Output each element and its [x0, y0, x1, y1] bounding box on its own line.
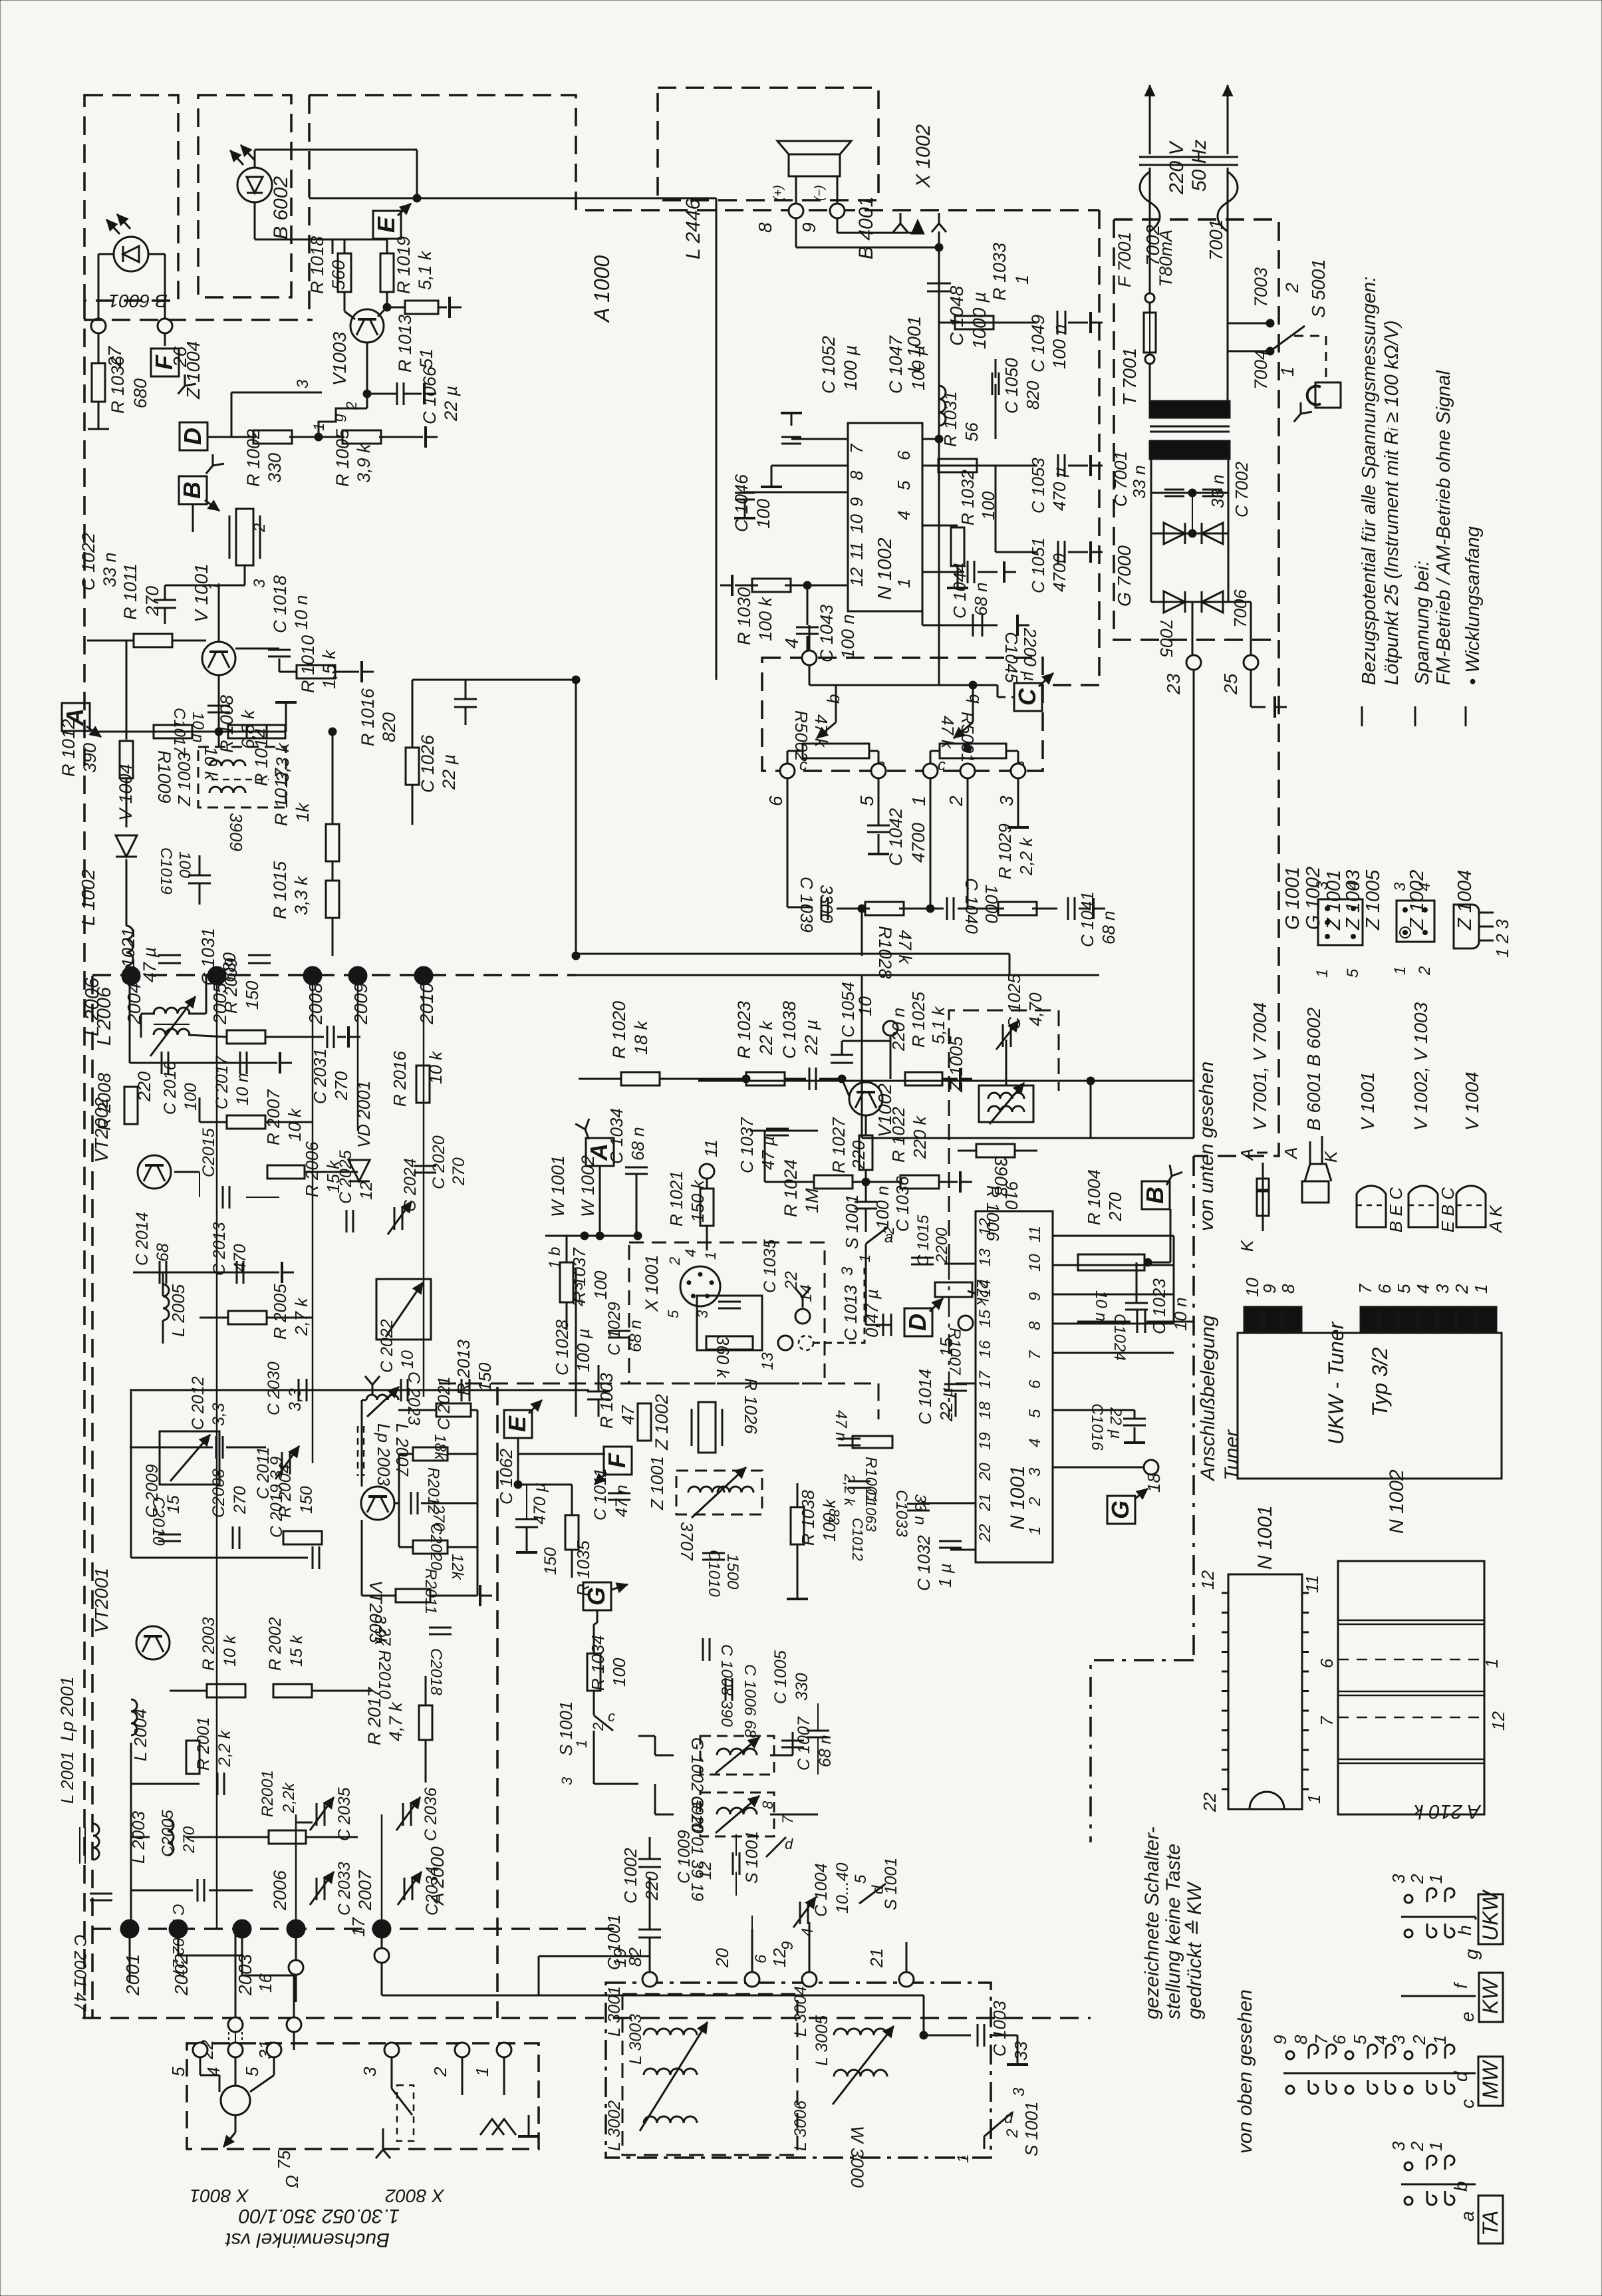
svg-text:1: 1 [954, 2154, 972, 2163]
svg-text:C1033: C1033 [892, 1490, 910, 1537]
svg-text:1k: 1k [293, 802, 313, 822]
svg-text:12: 12 [357, 1181, 376, 1200]
svg-text:12: 12 [696, 1861, 715, 1880]
svg-text:UKW - Tuner: UKW - Tuner [1324, 1321, 1348, 1445]
svg-text:R 1036: R 1036 [108, 355, 128, 414]
svg-text:C 1066: C 1066 [420, 366, 440, 424]
svg-text:E B C: E B C [1438, 1187, 1458, 1232]
svg-text:23: 23 [1163, 673, 1184, 695]
svg-text:C 1026: C 1026 [418, 734, 438, 793]
svg-text:270: 270 [180, 1826, 198, 1854]
svg-text:R 1032: R 1032 [958, 470, 978, 525]
svg-text:6: 6 [752, 1954, 770, 1963]
svg-text:12k: 12k [448, 1554, 466, 1581]
svg-text:360 k: 360 k [713, 1336, 733, 1379]
svg-text:Lp 2001: Lp 2001 [57, 1676, 77, 1741]
svg-text:C 1004: C 1004 [812, 1863, 831, 1917]
svg-text:8: 8 [1291, 2035, 1311, 2045]
svg-text:22 µ: 22 µ [936, 1387, 956, 1422]
svg-text:68 n: 68 n [628, 1127, 648, 1161]
svg-text:17: 17 [348, 1917, 368, 1937]
svg-text:2002: 2002 [171, 1953, 192, 1996]
svg-text:21: 21 [976, 1493, 994, 1512]
svg-text:22 µ: 22 µ [439, 754, 459, 790]
svg-text:7: 7 [1317, 1715, 1337, 1726]
svg-text:L 1002: L 1002 [78, 869, 98, 926]
svg-text:4: 4 [1344, 881, 1362, 890]
svg-text:1M: 1M [802, 1188, 822, 1213]
svg-text:C 1036: C 1036 [892, 1176, 912, 1232]
svg-text:18: 18 [976, 1401, 994, 1419]
svg-text:7: 7 [1026, 1350, 1044, 1360]
svg-text:3: 3 [1391, 882, 1409, 891]
svg-text:L 2005: L 2005 [168, 1284, 188, 1337]
svg-text:3: 3 [1389, 1874, 1408, 1884]
svg-text:h: h [1454, 1925, 1475, 1936]
svg-text:X 8001: X 8001 [190, 2186, 249, 2206]
svg-text:V1003: V1003 [329, 332, 350, 386]
svg-text:R 1023: R 1023 [734, 1001, 754, 1059]
svg-text:10: 10 [398, 1350, 417, 1369]
svg-text:150 k: 150 k [688, 1179, 708, 1222]
svg-text:A: A [1281, 1147, 1301, 1160]
svg-text:3909: 3909 [226, 813, 246, 851]
svg-text:C 2013: C 2013 [210, 1222, 229, 1276]
svg-text:7: 7 [847, 443, 867, 454]
svg-text:C 1041: C 1041 [1077, 891, 1097, 947]
svg-text:Z 1001: Z 1001 [647, 1456, 667, 1510]
svg-text:9: 9 [779, 1941, 797, 1950]
svg-text:VD 2001: VD 2001 [354, 1081, 374, 1148]
svg-text:2: 2 [1416, 966, 1434, 976]
svg-text:A 2000: A 2000 [427, 1846, 448, 1906]
svg-text:D: D [179, 428, 206, 445]
svg-text:10 k: 10 k [221, 1634, 239, 1667]
svg-text:3: 3 [839, 1266, 857, 1276]
svg-text:C 1018: C 1018 [270, 575, 290, 633]
svg-text:L 3005: L 3005 [813, 2015, 831, 2066]
svg-text:4700: 4700 [1049, 553, 1069, 592]
svg-text:910: 910 [1001, 1181, 1021, 1210]
svg-text:C 1035: C 1035 [761, 1239, 779, 1293]
svg-text:2: 2 [1409, 2035, 1429, 2045]
svg-text:2: 2 [1407, 2141, 1427, 2152]
svg-text:2: 2 [343, 402, 360, 410]
svg-text:C 2024: C 2024 [401, 1158, 420, 1212]
svg-text:R 2002: R 2002 [266, 1617, 285, 1671]
svg-text:270: 270 [450, 1157, 468, 1186]
svg-text:33 n: 33 n [100, 552, 120, 587]
svg-text:2,2 k: 2,2 k [1016, 837, 1036, 876]
svg-text:21: 21 [867, 1948, 886, 1968]
svg-text:330: 330 [793, 1673, 811, 1701]
svg-text:S 1001: S 1001 [842, 1195, 862, 1249]
svg-text:270: 270 [231, 1486, 249, 1514]
svg-text:e: e [1457, 2011, 1478, 2022]
svg-text:11: 11 [1302, 1575, 1322, 1593]
svg-text:1000 µ: 1000 µ [969, 292, 990, 349]
svg-text:E: E [372, 216, 400, 233]
svg-text:1,5 k: 1,5 k [319, 649, 339, 689]
svg-text:C 1042: C 1042 [886, 808, 906, 866]
svg-text:6: 6 [1375, 1284, 1395, 1294]
svg-text:33: 33 [1011, 2041, 1031, 2061]
svg-text:18 k: 18 k [631, 1020, 651, 1055]
svg-text:R 1004: R 1004 [1084, 1169, 1104, 1225]
svg-text:C 1039: C 1039 [797, 877, 817, 933]
svg-text:C2015: C2015 [200, 1128, 218, 1177]
svg-text:390: 390 [80, 743, 100, 773]
svg-text:stellung keine Taste: stellung keine Taste [1162, 1844, 1184, 2019]
svg-text:2: 2 [430, 2067, 450, 2077]
svg-text:R 2007: R 2007 [263, 1089, 283, 1145]
svg-text:Buchsenwinkel vst: Buchsenwinkel vst [225, 2229, 390, 2251]
svg-text:R 1011: R 1011 [120, 563, 140, 620]
svg-text:C1012: C1012 [849, 1518, 866, 1561]
svg-text:6: 6 [1329, 2035, 1349, 2045]
svg-text:Z 1002: Z 1002 [652, 1394, 672, 1451]
svg-text:d: d [1004, 2109, 1013, 2127]
svg-text:470 µ: 470 µ [1049, 467, 1069, 511]
svg-text:F 7001: F 7001 [1115, 231, 1135, 287]
svg-text:2: 2 [251, 523, 269, 533]
svg-text:10 k: 10 k [285, 1107, 305, 1141]
svg-text:R 2001: R 2001 [194, 1717, 213, 1771]
svg-text:4: 4 [799, 1928, 817, 1937]
svg-text:9: 9 [847, 498, 867, 507]
svg-text:c: c [608, 1708, 615, 1725]
svg-text:82: 82 [826, 1508, 843, 1524]
svg-text:270: 270 [142, 586, 162, 617]
svg-text:C 2014: C 2014 [133, 1212, 152, 1266]
svg-text:gedrückt ≙ KW: gedrückt ≙ KW [1184, 1881, 1206, 2019]
svg-text:2: 2 [1003, 2129, 1021, 2138]
svg-text:220: 220 [849, 1140, 868, 1170]
svg-text:9: 9 [1026, 1292, 1044, 1301]
svg-text:A K: A K [1486, 1204, 1506, 1234]
svg-text:B 4001: B 4001 [855, 196, 877, 259]
svg-text:T 7001: T 7001 [1119, 348, 1140, 406]
svg-text:C1016: C1016 [1088, 1403, 1106, 1451]
svg-text:470: 470 [231, 1244, 249, 1272]
svg-text:13: 13 [976, 1248, 994, 1266]
svg-text:4: 4 [781, 638, 802, 648]
svg-text:1: 1 [1426, 2142, 1446, 2151]
svg-text:2006: 2006 [270, 1870, 290, 1911]
svg-text:3,3: 3,3 [286, 1388, 305, 1411]
svg-text:R 1025: R 1025 [908, 992, 928, 1048]
svg-text:R 1034: R 1034 [588, 1635, 608, 1691]
svg-text:R 1026: R 1026 [741, 1378, 761, 1434]
svg-text:R 1018: R 1018 [307, 236, 327, 294]
svg-text:X 1001: X 1001 [642, 1254, 662, 1312]
svg-text:R5002: R5002 [791, 710, 811, 762]
svg-text:6: 6 [894, 450, 914, 460]
svg-text:K: K [1321, 1150, 1341, 1163]
svg-text:C 2030: C 2030 [265, 1362, 283, 1415]
svg-text:2: 2 [590, 1723, 606, 1731]
svg-text:L 2007: L 2007 [392, 1423, 412, 1477]
svg-text:R 2017: R 2017 [364, 1687, 384, 1745]
svg-text:R 1030: R 1030 [734, 587, 754, 645]
svg-text:10 n: 10 n [189, 712, 207, 743]
svg-text:R 2008: R 2008 [94, 1073, 114, 1131]
svg-text:C 2025: C 2025 [336, 1150, 355, 1204]
svg-text:C 1044: C 1044 [950, 563, 970, 619]
svg-text:33 n: 33 n [1208, 474, 1228, 508]
svg-text:2,2 k: 2,2 k [215, 1729, 234, 1767]
svg-text:C 1015: C 1015 [914, 1215, 932, 1266]
svg-text:270: 270 [331, 1071, 351, 1101]
svg-text:V 7001, V 7004: V 7001, V 7004 [1250, 1002, 1270, 1131]
svg-text:1: 1 [1026, 1526, 1044, 1535]
svg-text:3: 3 [1389, 2035, 1408, 2045]
svg-text:10: 10 [847, 514, 867, 533]
svg-text:V 1004: V 1004 [1462, 1072, 1482, 1131]
svg-text:12: 12 [976, 1218, 994, 1236]
svg-text:C 1025: C 1025 [1004, 974, 1024, 1030]
svg-text:C 1009: C 1009 [675, 1830, 694, 1884]
svg-text:68: 68 [154, 1243, 172, 1262]
svg-text:R5001: R5001 [958, 712, 978, 763]
svg-text:22 µ: 22 µ [1107, 1407, 1125, 1439]
svg-text:9: 9 [1270, 2035, 1290, 2045]
svg-text:C 2019 3,9: C 2019 3,9 [267, 1457, 286, 1538]
svg-text:C 7001: C 7001 [1111, 451, 1131, 507]
svg-text:10 n: 10 n [1092, 1290, 1110, 1322]
svg-text:R 2005: R 2005 [270, 1284, 290, 1340]
svg-text:12: 12 [1198, 1570, 1218, 1590]
svg-text:1: 1 [1482, 1659, 1502, 1668]
svg-text:C 2012: C 2012 [189, 1376, 207, 1430]
svg-text:V 1001: V 1001 [1357, 1072, 1378, 1131]
svg-text:S 5001: S 5001 [1308, 259, 1329, 318]
svg-text:A: A [61, 708, 88, 726]
svg-text:2009: 2009 [350, 983, 371, 1025]
svg-text:C 2017: C 2017 [213, 1055, 231, 1109]
svg-text:C 2009: C 2009 [143, 1464, 162, 1518]
svg-text:68 n: 68 n [971, 582, 991, 616]
svg-text:7: 7 [779, 1815, 796, 1824]
svg-text:Z 1004: Z 1004 [1454, 870, 1476, 931]
svg-text:20: 20 [712, 1948, 732, 1968]
svg-text:Bezugspotential für alle Spann: Bezugspotential für alle Spannungsmessun… [1359, 277, 1380, 685]
svg-text:K: K [1237, 1239, 1257, 1252]
svg-text:68 n: 68 n [626, 1320, 645, 1352]
svg-text:8: 8 [1026, 1321, 1044, 1330]
svg-text:9: 9 [1260, 1284, 1279, 1294]
svg-text:R 1022: R 1022 [888, 1107, 908, 1163]
svg-text:15 k: 15 k [287, 1634, 306, 1667]
svg-text:B 6001 B 6002: B 6001 B 6002 [1303, 1007, 1324, 1131]
svg-text:C 2016: C 2016 [161, 1061, 180, 1115]
svg-text:R 1010: R 1010 [298, 635, 318, 693]
svg-text:C 1028: C 1028 [552, 1320, 572, 1375]
svg-text:L 2446: L 2446 [682, 198, 704, 259]
svg-text:1: 1 [1426, 1874, 1446, 1884]
svg-text:G: G [1107, 1501, 1134, 1519]
svg-text:25: 25 [1220, 673, 1241, 695]
svg-text:10...40: 10...40 [833, 1862, 852, 1914]
svg-text:R 1013: R 1013 [395, 315, 415, 372]
svg-text:gezeichnete Schalter-: gezeichnete Schalter- [1141, 1826, 1163, 2019]
svg-text:1: 1 [311, 423, 327, 431]
svg-text:6: 6 [765, 795, 786, 806]
svg-text:C1019: C1019 [157, 847, 175, 895]
svg-text:T80mA: T80mA [1156, 229, 1176, 287]
svg-text:47 µ: 47 µ [140, 947, 160, 982]
svg-text:5: 5 [1350, 2035, 1370, 2045]
svg-text:68 n: 68 n [816, 1735, 835, 1767]
svg-text:L 3003: L 3003 [626, 2014, 645, 2065]
svg-text:22: 22 [1200, 1793, 1220, 1812]
svg-text:9: 9 [799, 222, 819, 233]
svg-text:a: a [1457, 2211, 1478, 2222]
svg-text:3: 3 [1432, 1284, 1452, 1294]
svg-text:Lp 2003: Lp 2003 [374, 1423, 394, 1487]
svg-text:C 1038: C 1038 [779, 1001, 799, 1059]
svg-text:2: 2 [946, 795, 966, 807]
svg-text:1: 1 [573, 1740, 590, 1748]
svg-text:7: 7 [1311, 2034, 1331, 2045]
svg-text:Typ 3/2: Typ 3/2 [1368, 1347, 1392, 1417]
svg-text:13: 13 [759, 1352, 777, 1370]
svg-text:33 n: 33 n [911, 1494, 929, 1525]
svg-text:A: A [1237, 1149, 1257, 1161]
svg-text:R 2003: R 2003 [200, 1617, 218, 1671]
svg-text:R 2016: R 2016 [390, 1051, 410, 1107]
svg-text:C 1040: C 1040 [962, 878, 982, 934]
svg-text:V 1004: V 1004 [116, 764, 136, 821]
svg-text:C 1011: C 1011 [591, 1468, 610, 1520]
svg-text:6: 6 [1317, 1658, 1337, 1668]
svg-text:12: 12 [1488, 1711, 1508, 1731]
svg-text:1: 1 [1313, 969, 1331, 978]
svg-text:R2001: R2001 [259, 1770, 277, 1817]
svg-text:3: 3 [1313, 881, 1331, 890]
svg-text:C 1013: C 1013 [841, 1285, 861, 1341]
svg-text:L 3004: L 3004 [791, 1986, 810, 2037]
svg-text:Z 1005: Z 1005 [946, 1036, 966, 1093]
svg-text:C 1001: C 1001 [604, 1914, 624, 1970]
svg-text:3707: 3707 [677, 1522, 697, 1561]
svg-text:3: 3 [294, 379, 312, 388]
svg-text:C 1052: C 1052 [819, 336, 839, 394]
svg-text:C2020: C2020 [427, 1523, 445, 1570]
svg-text:8: 8 [847, 470, 867, 480]
svg-text:UKW: UKW [1478, 1890, 1502, 1941]
svg-text:1500: 1500 [724, 1554, 741, 1590]
svg-text:150: 150 [541, 1547, 560, 1575]
svg-text:22 µ: 22 µ [441, 386, 461, 422]
svg-text:10: 10 [855, 996, 875, 1016]
svg-text:R 1033: R 1033 [990, 243, 1009, 301]
svg-text:• Wicklungsanfang: • Wicklungsanfang [1462, 526, 1484, 685]
svg-text:C 7002: C 7002 [1232, 462, 1252, 517]
svg-text:C 1051: C 1051 [1028, 537, 1048, 593]
svg-text:C 1014: C 1014 [915, 1369, 935, 1425]
svg-text:47 µ: 47 µ [758, 1136, 778, 1170]
svg-text:100 n: 100 n [838, 614, 858, 659]
svg-text:R 2006: R 2006 [302, 1141, 322, 1197]
svg-text:5: 5 [1394, 1284, 1414, 1294]
svg-text:150: 150 [242, 980, 262, 1010]
svg-text:22: 22 [976, 1524, 994, 1542]
svg-text:100: 100 [182, 1083, 200, 1111]
svg-text:C 1053: C 1053 [1028, 458, 1048, 513]
svg-text:N 1002: N 1002 [874, 537, 896, 600]
svg-text:3300: 3300 [817, 885, 837, 923]
svg-text:68 n: 68 n [1099, 911, 1119, 944]
svg-text:3: 3 [996, 795, 1017, 806]
svg-text:4: 4 [682, 1249, 699, 1257]
svg-text:3,9 k: 3,9 k [354, 443, 374, 483]
svg-text:Lötpunkt 25 (Instrument mit Ri: Lötpunkt 25 (Instrument mit Ri ≥ 100 kΩ/… [1381, 320, 1402, 685]
svg-text:C 1023: C 1023 [1149, 1278, 1169, 1334]
svg-text:150: 150 [475, 1362, 495, 1391]
svg-text:7: 7 [1355, 1283, 1375, 1294]
svg-text:L 2001: L 2001 [57, 1751, 77, 1804]
svg-text:(+): (+) [771, 185, 785, 201]
svg-text:7001: 7001 [1206, 219, 1226, 261]
svg-text:6: 6 [1026, 1379, 1044, 1389]
svg-text:2: 2 [666, 1257, 683, 1266]
svg-text:2: 2 [569, 1298, 586, 1307]
svg-text:100 n: 100 n [872, 1186, 892, 1229]
svg-text:KW: KW [1478, 1978, 1502, 2014]
svg-text:3: 3 [360, 2067, 380, 2077]
svg-text:1: 1 [702, 1252, 719, 1260]
svg-text:C 1062: C 1062 [496, 1449, 516, 1505]
svg-text:R 1002: R 1002 [243, 429, 263, 487]
svg-text:C 1034: C 1034 [606, 1108, 626, 1164]
svg-text:680: 680 [130, 378, 150, 408]
svg-text:100 µ: 100 µ [841, 345, 861, 390]
svg-text:b: b [1450, 2181, 1471, 2192]
svg-text:1: 1 [908, 795, 929, 806]
svg-text:3: 3 [1010, 2087, 1028, 2096]
svg-text:51: 51 [416, 349, 436, 368]
svg-text:4: 4 [1413, 1284, 1433, 1294]
svg-text:2001: 2001 [122, 1954, 143, 1996]
svg-text:Z 1004: Z 1004 [183, 341, 203, 400]
svg-text:1 b: 1 b [546, 1247, 564, 1269]
svg-text:S 1001: S 1001 [1021, 2102, 1041, 2156]
svg-text:R 1038: R 1038 [798, 1490, 818, 1546]
svg-text:3: 3 [1026, 1467, 1044, 1477]
svg-text:N 1002: N 1002 [1386, 1469, 1408, 1534]
svg-text:R 1014: R 1014 [251, 728, 271, 786]
svg-text:1.30.052 350.1/00: 1.30.052 350.1/00 [239, 2205, 400, 2227]
svg-text:8: 8 [755, 222, 775, 233]
svg-text:11: 11 [1026, 1226, 1044, 1242]
svg-text:1: 1 [1430, 2035, 1450, 2045]
svg-text:1: 1 [1471, 1284, 1491, 1294]
svg-text:C 1049: C 1049 [1028, 315, 1048, 372]
svg-text:R 1005: R 1005 [333, 428, 352, 487]
svg-text:5: 5 [852, 1874, 870, 1884]
svg-text:R 1035: R 1035 [573, 1540, 593, 1596]
svg-text:330: 330 [265, 453, 285, 483]
svg-text:47 k: 47 k [938, 716, 958, 750]
svg-text:1 2 3: 1 2 3 [1492, 919, 1512, 958]
svg-text:2: 2 [1452, 1284, 1472, 1294]
svg-text:1: 1 [1304, 1794, 1324, 1804]
svg-text:2: 2 [880, 1226, 897, 1235]
svg-text:220 V: 220 V [1166, 140, 1188, 195]
svg-text:3: 3 [251, 579, 269, 588]
svg-text:N 1001: N 1001 [1254, 1505, 1276, 1570]
